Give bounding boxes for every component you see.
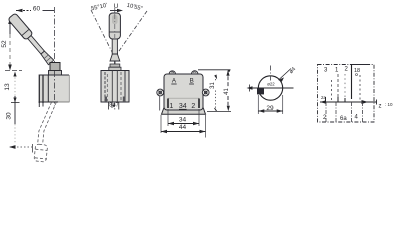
U arrow [110,10,121,12]
keyway [257,88,264,94]
lever boot [40,50,54,64]
svg-text:U: U [114,3,119,10]
extension tick body bottom [11,102,20,104]
lever arm assembly (rotated up-left 40deg) [8,13,55,66]
dimension 52 line [9,19,11,34]
lower dash-dot vertical d [362,102,364,123]
dim 34 line [168,123,199,125]
toggle shaft front [112,39,117,54]
dashed vertical contact b2 [344,74,346,98]
terminal strip top line [168,97,199,99]
terminal slot 1 [167,99,169,109]
swing line right [115,11,147,57]
dimension line vertical 13/30 [14,96,16,124]
body internal dashed right [120,72,122,101]
svg-text:7: 7 [116,103,119,109]
svg-text:8: 8 [109,103,112,109]
horizontal centerline [248,87,294,89]
svg-text:31: 31 [210,82,216,89]
pivot nut [49,71,62,76]
dim 13/30 arrows [13,72,16,103]
svg-text:6a: 6a [340,116,347,122]
svg-text:29: 29 [266,105,274,112]
grip inner shade [112,15,118,24]
lever shaft [27,35,44,54]
dim 41 bottom arrow [227,106,230,112]
svg-text:2a: 2a [321,95,327,100]
flange stubs below body [39,103,43,107]
svg-text:13: 13 [4,83,11,91]
boot rings [110,64,120,67]
dim 31 bottom tick [215,108,217,111]
right screw [202,89,209,96]
vertical centerline [270,66,272,81]
dashed vertical contact b [331,80,333,101]
grip separation line [22,30,29,36]
svg-text:: 10: : 10 [385,102,393,107]
dim 31 top arrow [214,75,217,80]
terminal slot 2 [198,99,200,109]
dimension 52 arrows [8,18,12,71]
leader arrowhead [279,77,285,81]
extension line body bottom to right [207,110,231,112]
bottom dim arrow [9,145,16,149]
swing line left [91,10,115,57]
actuator line end tick [376,100,378,105]
small down arrow [113,103,115,107]
dashed grip outline [34,144,48,162]
dashed shaft line left [38,102,52,145]
29 extension lines [258,95,282,114]
extension line from pivot to left [5,70,22,72]
mounting circle [258,76,282,100]
shaft continuation lines [112,71,117,103]
dimension 60 line [16,10,54,12]
body edges [39,74,69,76]
centerline over grip [114,14,116,38]
toggle centerline [114,8,116,110]
dashed grip separation [35,149,47,150]
dashed grip bottom line [35,158,47,159]
body front [101,71,129,103]
body internal solid right [124,71,126,102]
boot ring [44,55,51,62]
svg-text:30: 30 [6,112,13,120]
grip edge tick [32,144,34,153]
top edge solid segment [352,64,369,66]
tiny mark left of body top [101,73,103,76]
dashed vertical contact c [359,75,361,101]
body internal dashed left [104,72,106,101]
schematic box dashed [318,65,375,123]
shaft dim extension lines below body [109,102,119,110]
dashed lever down position [34,102,56,162]
boot pin above [114,61,116,65]
toggle grip front [109,13,120,39]
svg-text:41: 41 [224,88,230,95]
solid contact line from top [351,65,353,100]
svg-text:52: 52 [1,40,8,48]
switch body side view [39,75,69,102]
dim 29 line [258,110,282,112]
bottom dotted dimension to grip [10,146,32,148]
dashed shaft line right [43,102,57,145]
dim 41 top arrow [226,70,229,76]
body face [164,74,203,110]
top bump left [169,71,175,74]
contact tick marks [326,97,346,102]
centerline vertical view1 [54,7,56,71]
leader line diagonal [279,69,292,81]
extension lines bottom view3 [161,109,206,138]
terminal marks bottom [105,97,107,103]
svg-text:ø22: ø22 [267,82,275,87]
dim 31 line [215,79,217,110]
body centerline continuation [54,71,56,106]
actuator arrow [362,100,369,104]
body flange lines [39,75,43,104]
tiny ring under 18 [356,74,358,76]
line below left screw [159,96,161,111]
left arrow on centerline [247,86,253,90]
body bottom flange [162,108,206,114]
dim 41 line [227,71,229,106]
lever grip [8,13,33,40]
svg-text:18: 18 [354,68,360,74]
lower dash-dot vertical c [351,102,353,123]
dashed vertical contact a [337,74,339,101]
svg-text:60: 60 [33,6,41,13]
grip line front [109,31,120,33]
svg-text:z: z [379,104,382,110]
lower dash-dot vertical a [325,102,327,123]
left screw [157,89,164,96]
svg-text:1: 1 [169,103,173,110]
dimension 60 arrows [16,9,23,13]
lower dash-dot vertical b [335,102,337,123]
pivot bushing [50,63,60,71]
svg-text:34: 34 [179,117,187,124]
top bump right [191,71,198,74]
svg-text:44: 44 [179,124,187,131]
svg-text:2: 2 [191,103,195,110]
actuator line left arrow [320,100,326,104]
actuator line horizontal [320,101,377,103]
dim 44 line [161,131,206,133]
extension line body top to right [198,69,231,71]
toggle flare [110,54,120,61]
